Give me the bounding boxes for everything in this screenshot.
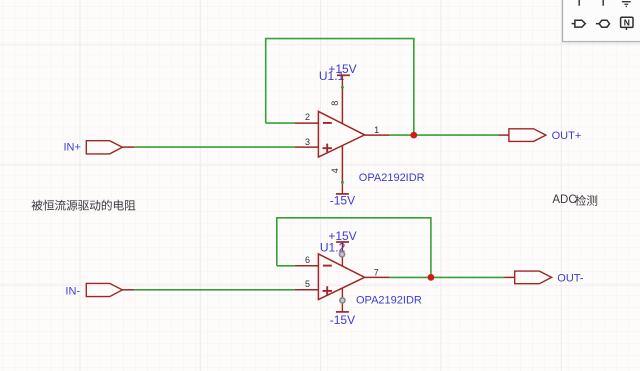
port IN+ pin stub	[122, 146, 134, 148]
op-amp U1.2 pin 5 stub	[295, 289, 318, 291]
wire feedback loop U1.1	[266, 39, 414, 135]
svg-text:5: 5	[305, 279, 310, 289]
power flag +15V U1.1 bar	[337, 74, 350, 76]
svg-text:IN+: IN+	[64, 142, 81, 154]
op-amp U1.2 pin 6 stub	[295, 265, 318, 267]
svg-text:8: 8	[330, 101, 340, 106]
power flag +15V U1.2 bar	[336, 241, 349, 243]
op-amp U1.1 plus sign	[323, 144, 332, 153]
svg-text:OUT+: OUT+	[552, 130, 582, 142]
wire feedback loop U1.2	[277, 218, 431, 278]
junction dot pin 4	[341, 181, 344, 184]
toolbar icon stub 2	[602, 0, 604, 6]
op-amp U1.2 pin 7 stub	[365, 276, 390, 278]
svg-text:-15V: -15V	[330, 193, 355, 207]
wire IN+ to pin 3	[135, 146, 295, 148]
port IN-	[86, 283, 122, 296]
junction dot pin 8	[341, 86, 344, 89]
op-amp U1.1 triangle	[318, 111, 364, 157]
svg-text:3: 3	[305, 137, 310, 147]
svg-text:+15V: +15V	[328, 229, 356, 243]
toolbar icon net port hexagon	[596, 20, 610, 27]
svg-text:OPA2192IDR: OPA2192IDR	[359, 172, 425, 184]
wire output pin1 to OUT+	[389, 134, 498, 136]
op-amp U1.2 minus sign	[323, 265, 332, 267]
svg-text:1: 1	[374, 125, 379, 135]
power flag -15V U1.2 lead	[341, 289, 343, 312]
svg-text:4: 4	[330, 168, 340, 173]
toolbar icon port flag	[572, 20, 586, 27]
unconnected pin marker bottom U1.2	[340, 298, 345, 303]
svg-text:IN-: IN-	[65, 285, 80, 297]
op-amp U1.1 pin 2 stub	[295, 122, 318, 124]
op-amp U1.1 pin 4 stub	[341, 146, 343, 183]
svg-text:6: 6	[305, 255, 310, 265]
port IN- pin stub	[122, 289, 134, 291]
power flag +15V U1.2 lead	[341, 242, 343, 267]
svg-text:OPA2192IDR: OPA2192IDR	[356, 294, 422, 306]
port OUT+	[509, 129, 546, 142]
port OUT+ pin stub	[499, 134, 510, 136]
wire IN- to pin 5	[135, 289, 295, 291]
text note ADC detection	[552, 194, 597, 206]
svg-text:2: 2	[305, 112, 310, 122]
svg-text:+15V: +15V	[328, 62, 356, 76]
wire pin 2 to feedback left	[266, 122, 295, 124]
svg-text:-15V: -15V	[330, 313, 355, 327]
op-amp U1.1 pin 8 stub	[341, 87, 343, 124]
toolbar icon stub 1	[578, 0, 580, 6]
junction dot node OUT+	[410, 132, 417, 139]
port IN+	[86, 141, 122, 154]
toolbar panel	[561, 0, 640, 43]
op-amp U1.2 triangle	[318, 254, 364, 300]
text note resistor driven by constant current source	[32, 200, 136, 211]
svg-text:N: N	[624, 17, 630, 27]
svg-text:ADC: ADC	[552, 194, 576, 206]
op-amp U1.1 pin 1 stub	[365, 134, 390, 136]
op-amp U1.1 pin 3 stub	[295, 146, 318, 148]
junction dot node OUT-	[428, 274, 435, 281]
toolbar icon netlabel N	[621, 17, 633, 30]
port OUT- pin stub	[504, 276, 515, 278]
power flag -15V U1.1 bar	[336, 193, 349, 195]
wire pin 6 to feedback left	[277, 265, 295, 267]
unconnected pin marker top U1.2	[339, 252, 344, 257]
toolbar icon ground	[622, 2, 631, 8]
wire output pin7 to OUT-	[389, 276, 504, 278]
op-amp U1.1 minus sign	[323, 122, 332, 124]
svg-text:7: 7	[374, 268, 379, 278]
power flag -15V U1.1 lead	[341, 182, 343, 194]
svg-text:OUT-: OUT-	[557, 272, 584, 284]
power flag -15V U1.2 bar	[336, 311, 349, 313]
op-amp U1.2 plus sign	[323, 286, 332, 295]
power flag +15V U1.1 lead	[341, 75, 343, 87]
port OUT-	[515, 271, 552, 284]
